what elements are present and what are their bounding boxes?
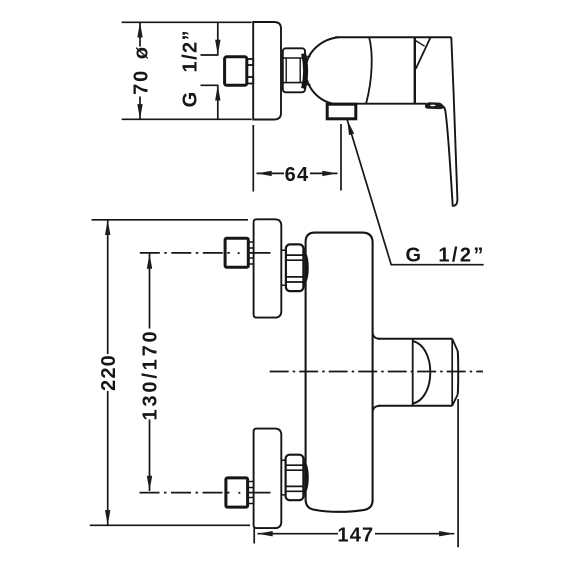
dimension line 220 [107,220,109,526]
arrow 130/170 top [147,254,152,269]
nut-dome tick bottom [307,84,311,86]
label 147 [338,525,375,542]
lower hex nut (front view) [286,455,304,501]
extension line right (64 dim) [340,124,342,191]
extension line top (220 dim) [92,219,248,221]
body dome (top view) [306,37,339,103]
label 64 [284,165,310,182]
extension line right (147 dim) [457,399,459,547]
svg-text:64: 64 [285,164,310,186]
dark crescent between nut and body [304,54,306,89]
lower nipple threads [248,482,253,504]
label 220 [100,354,117,391]
arrow 220 top [105,220,110,235]
spout opening arc [413,341,430,403]
outlet port (top view) [327,104,356,119]
upper inlet centerline [140,252,231,254]
fitting nipple lower tab [247,77,253,84]
leader arrow [345,119,355,135]
extension line bottom (70 dim) [122,118,252,120]
svg-text:G 1/2”: G 1/2” [180,29,202,107]
arrow 147 right [439,531,454,536]
body bottom edge [330,103,426,105]
dimension line G 1/2 bottom segment [217,85,219,119]
spout top fillet [373,333,380,339]
extension line left (147 dim) [253,528,255,544]
label 70 dia [132,47,148,97]
lower wall plate (front view) [254,429,282,528]
handle neck diagonal [416,37,431,69]
svg-text:70: 70 [130,69,152,95]
arrow 64 left [257,171,272,176]
arrow 130/170 bottom [147,476,152,491]
upper inlet fitting [225,238,248,267]
extension line top (70 dim) [122,21,252,23]
svg-text:220: 220 [98,354,120,391]
label 130/170 [141,329,158,420]
arrow G top [215,40,220,55]
leader line to outlet [347,120,484,265]
body top edge [335,36,451,38]
handle hook blob [425,102,444,109]
extension line bottom (220 dim) [90,524,250,526]
fitting nipple upper tab [247,59,253,65]
dimension line 70 [139,22,141,119]
dimension line G 1/2 top segment [217,22,219,55]
spout chamfer bottom right [452,395,458,406]
upper hex nut (front view) [286,244,304,291]
tick G top [201,54,219,56]
tick G bottom [201,84,219,86]
spout top edge [378,338,452,340]
dimension line 147 [258,533,455,535]
spout face line [451,339,453,406]
arrow 70 top [137,22,142,37]
lower inlet centerline [140,492,232,494]
svg-text:ø: ø [130,46,152,59]
spout right edge [457,351,460,395]
main centerline [270,371,483,373]
nut-dome tick top [307,56,311,58]
dimension line 130/170 [149,254,151,491]
upper wall plate (front view) [254,219,282,317]
spout bottom fillet [373,406,380,412]
dome separation curve [366,38,372,104]
lower inlet fitting [226,478,248,507]
mixer body (front view) [306,233,373,512]
svg-text:130/170: 130/170 [139,329,161,421]
dimension line 64 [257,172,338,174]
inlet fitting square (top view) [225,57,247,86]
arrow 220 bottom [105,510,110,525]
spout chamfer top right [452,339,458,351]
extension line left (64 dim) [252,125,254,192]
handle neck small diagonal [415,40,425,46]
arrow 70 bottom [137,104,142,119]
spout inner line [412,339,414,406]
wall plate (top view) [253,22,281,120]
handle lever [440,37,457,206]
spout bottom edge [378,405,452,407]
hex nut (top view) [283,48,305,92]
arrow 64 right [322,171,337,176]
svg-text:147: 147 [337,524,374,546]
svg-text:G 1/2”: G 1/2” [406,245,486,267]
arrow G bottom [215,85,220,100]
upper nipple threads [248,242,253,264]
arrow 147 left [258,531,273,536]
cartridge vertical edge [414,37,416,104]
